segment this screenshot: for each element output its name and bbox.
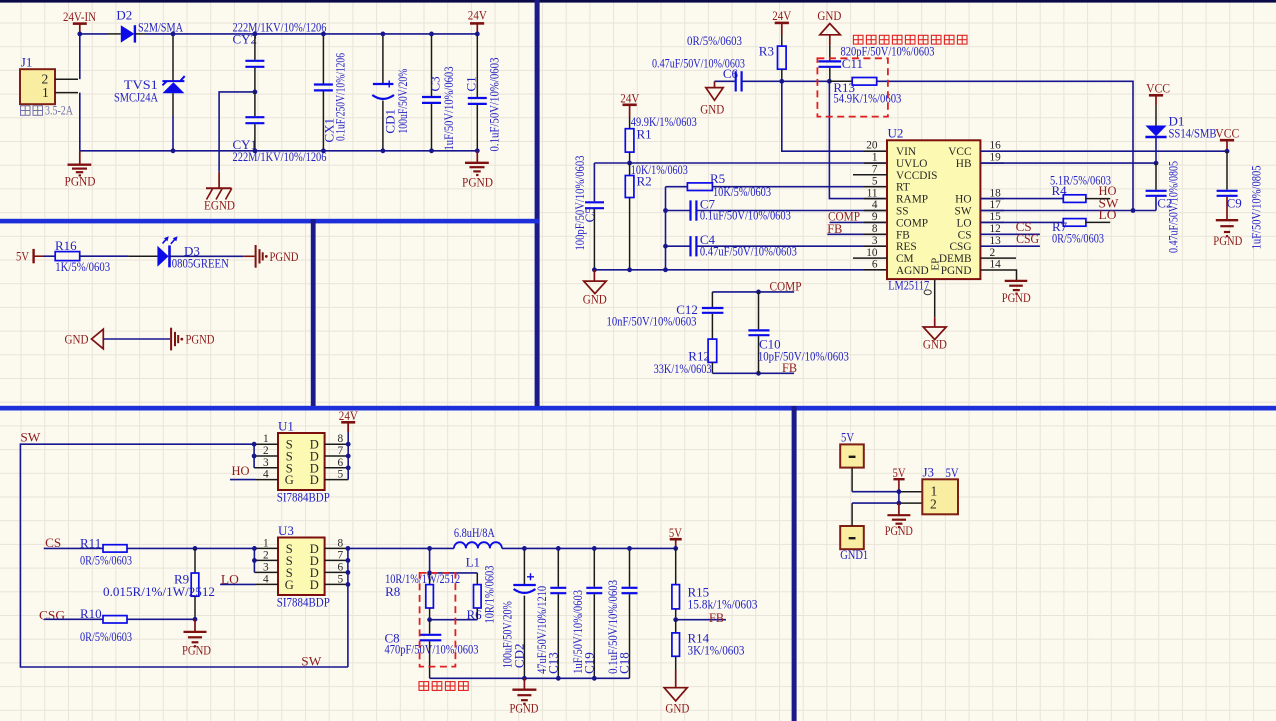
svg-text:L1: L1 [466, 555, 480, 570]
svg-text:2: 2 [930, 497, 937, 512]
capacitor C3 [422, 34, 456, 151]
node C7 left [663, 208, 668, 213]
node RT branch bottom [663, 267, 668, 272]
node C1 bottom [475, 148, 480, 153]
node R1/R2 divider [627, 161, 632, 166]
svg-text:AGND: AGND [896, 265, 929, 277]
svg-text:24V-IN: 24V-IN [63, 9, 97, 24]
net label FB (pin8) [827, 221, 887, 236]
wire output ground rail [430, 677, 630, 679]
U3 drain pin tie [325, 548, 348, 667]
svg-text:470pF/50V/10%/0603: 470pF/50V/10%/0603 [385, 642, 479, 657]
svg-text:CSG: CSG [950, 241, 972, 253]
wire CY mid to EGND drop [219, 92, 255, 172]
svg-text:PGND: PGND [270, 249, 299, 264]
svg-text:VCC: VCC [948, 146, 971, 158]
U2 pin stubs (black) [864, 151, 1004, 270]
svg-text:FB: FB [709, 610, 724, 625]
power port GND arrow (net tie) [65, 329, 104, 349]
wire FB bottom (compensation) [712, 372, 794, 374]
polarized capacitor CD2 [500, 548, 536, 678]
svg-text:PGND: PGND [510, 700, 539, 715]
wire RT branch vertical [665, 187, 667, 270]
svg-text:GND: GND [583, 291, 607, 306]
resistor R4 [980, 172, 1116, 202]
section divider horizontal y221 [0, 219, 540, 224]
node U3 pin5 [346, 582, 351, 587]
svg-text:CS: CS [45, 535, 61, 550]
svg-text:CS: CS [958, 229, 972, 241]
node U1 pin1 [252, 442, 257, 447]
svg-text:HO: HO [955, 194, 971, 206]
svg-text:0R/5%/0603: 0R/5%/0603 [80, 629, 132, 644]
node 24V junction [475, 32, 480, 37]
op-amp controller U2 LM25117 [887, 126, 980, 295]
U1 pin numbers [263, 433, 344, 480]
wire HB pin19 row [980, 162, 1156, 164]
resistor R7 [980, 207, 1116, 245]
node C5 bottom [592, 267, 597, 272]
U2 pin names [896, 146, 972, 277]
LED D3 [157, 236, 229, 270]
section divider vertical x794 [792, 406, 797, 721]
wire GND to PGND tie [103, 338, 170, 340]
svg-text:0.47uF/50V/10%/0603: 0.47uF/50V/10%/0603 [700, 243, 797, 258]
svg-text:10: 10 [866, 247, 878, 259]
svg-text:LO: LO [1099, 207, 1117, 222]
power port 5V (J3) [893, 465, 906, 492]
svg-text:3.5-2A: 3.5-2A [45, 103, 73, 118]
svg-text:CM: CM [896, 253, 914, 265]
power ground PGND (R9) [182, 619, 211, 657]
node CY1 bottom [253, 148, 258, 153]
power port 5V LED [16, 249, 43, 264]
wire R13 to SW [877, 81, 1133, 210]
svg-text:GND1: GND1 [840, 547, 868, 562]
net label FB (divider) [676, 610, 726, 625]
svg-text:LM25117: LM25117 [888, 277, 929, 292]
wire vertical 24V-IN to J1 pin2 [79, 34, 81, 79]
node TVS bottom [171, 148, 176, 153]
wire D3 to PGND [170, 255, 255, 257]
annotation box ramp components [817, 58, 888, 116]
capacitor C9 [1217, 151, 1264, 249]
svg-text:CD2: CD2 [511, 644, 526, 669]
node CY2 top [253, 32, 258, 37]
wire down to C5 [593, 163, 595, 201]
transistor U1 SI7884BDP [277, 419, 330, 505]
svg-text:R8: R8 [385, 584, 400, 599]
svg-text:1uF/50V/10%/0603: 1uF/50V/10%/0603 [441, 67, 456, 151]
node C3 bottom [429, 148, 434, 153]
svg-text:4: 4 [872, 199, 878, 211]
capacitor C19 [570, 548, 602, 678]
node TVS top [171, 32, 176, 37]
svg-text:GND: GND [923, 337, 947, 352]
svg-text:COMP: COMP [770, 278, 802, 293]
power port 24V (R1 divider) [620, 91, 640, 117]
net label CSG (pin13) [980, 231, 1040, 246]
svg-text:SS: SS [896, 206, 909, 218]
svg-text:VIN: VIN [896, 146, 916, 158]
svg-text:20: 20 [866, 140, 878, 152]
svg-text:4: 4 [263, 469, 269, 481]
node R8/R6 top [427, 571, 432, 576]
svg-text:D: D [310, 473, 319, 487]
svg-text:1: 1 [42, 85, 49, 100]
wire L1 to 5V node [502, 547, 676, 549]
capacitor C12 [607, 292, 724, 339]
svg-text:0.1uF/250V/10%/1206: 0.1uF/250V/10%/1206 [333, 53, 348, 141]
resistor R9 [103, 548, 215, 619]
svg-text:10pF/50V/10%/0603: 10pF/50V/10%/0603 [758, 349, 849, 364]
polarized capacitor CD1 [372, 34, 410, 151]
svg-text:R2: R2 [637, 173, 652, 188]
svg-text:SI7884BDP: SI7884BDP [277, 595, 330, 610]
svg-text:1uF/50V/10%/0805: 1uF/50V/10%/0805 [1248, 165, 1263, 249]
resistor R2 [625, 162, 688, 270]
node SW ramp junction [1131, 208, 1136, 213]
svg-text:HO: HO [232, 463, 250, 478]
node R8 bottom [427, 617, 432, 622]
node J3 pin2 [897, 501, 902, 506]
svg-text:R16: R16 [55, 238, 77, 253]
svg-text:12: 12 [990, 223, 1002, 235]
resistor R14 [672, 620, 745, 670]
resistor R16 [55, 238, 110, 274]
node ramp [827, 79, 832, 84]
svg-text:9: 9 [872, 211, 878, 223]
power ground PGND (C9) [1213, 197, 1242, 248]
node U3 pin1 [252, 546, 257, 551]
svg-text:5V: 5V [946, 465, 959, 480]
svg-text:PGND: PGND [1002, 290, 1031, 305]
resistor R12 [654, 339, 717, 376]
annotation box snubber [420, 573, 456, 667]
power ground PGND (output) [510, 678, 539, 715]
svg-text:3K/1%/0603: 3K/1%/0603 [688, 642, 745, 657]
svg-text:C13: C13 [545, 652, 560, 674]
svg-text:5V: 5V [841, 430, 854, 445]
node HB / D1 cathode [1154, 161, 1159, 166]
wire between J3 nodes [898, 492, 900, 503]
node CD1 bottom [381, 148, 386, 153]
capacitor C18 [605, 548, 637, 678]
svg-text:RT: RT [896, 182, 910, 194]
power port GND (EP pad) [923, 280, 947, 352]
node U3 pin8 [346, 546, 351, 551]
J1 value label 绿色3.5-2A [21, 103, 74, 118]
svg-text:VCCDIS: VCCDIS [896, 170, 937, 182]
svg-text:13: 13 [990, 235, 1002, 247]
svg-text:SW: SW [301, 654, 322, 669]
power port GND (R14) [664, 670, 689, 715]
node U3 pin6 [346, 570, 351, 575]
connector J3 [922, 465, 959, 515]
power ground PGND bar-style (net tie) [171, 328, 214, 351]
wire SW loop left [20, 444, 348, 667]
svg-text:S2M/SMA: S2M/SMA [138, 20, 183, 35]
node CD1 top [381, 32, 386, 37]
node C4 left [663, 244, 668, 249]
node C13 bottom [556, 676, 561, 681]
svg-text:5V: 5V [893, 465, 906, 480]
node snubber top [427, 546, 432, 551]
svg-text:0.1uF/50V/10%/0603: 0.1uF/50V/10%/0603 [486, 58, 501, 152]
power port GND (C11 top) [817, 8, 841, 45]
power ground PGND (J3) [885, 503, 913, 538]
node VCC / C9 top [1225, 149, 1230, 154]
TVS diode TVS1 [114, 34, 185, 151]
node C13 top [556, 546, 561, 551]
node CX1 bottom [321, 148, 326, 153]
node C19 bottom [592, 676, 597, 681]
svg-text:5: 5 [338, 469, 344, 481]
svg-text:LO: LO [956, 217, 971, 229]
svg-text:R3: R3 [759, 44, 774, 59]
svg-text:15: 15 [990, 211, 1002, 223]
svg-text:3: 3 [872, 235, 878, 247]
svg-text:24V: 24V [620, 91, 640, 106]
svg-text:PGND: PGND [186, 332, 215, 347]
power port GND (AGND rail) [583, 270, 607, 307]
transistor U3 SI7884BDP [277, 523, 330, 609]
power port GND (C6) [700, 81, 724, 116]
resistor R6 [430, 566, 497, 624]
capacitor C8 [385, 620, 479, 679]
node U3 pin7 [346, 558, 351, 563]
svg-text:U2: U2 [888, 126, 904, 141]
svg-text:RAMP: RAMP [896, 194, 928, 206]
node C19 top [592, 546, 597, 551]
wire 5V testpoint to J3 pin1 [852, 468, 922, 492]
svg-text:24V: 24V [339, 408, 359, 423]
svg-text:D: D [310, 578, 319, 592]
svg-text:VCC: VCC [1146, 81, 1170, 96]
power port VCC (D1 anode) [1146, 81, 1170, 105]
power ground PGND (pin14) [980, 270, 1030, 305]
wire UVLO row [594, 162, 887, 164]
capacitor C10 [748, 292, 849, 373]
capacitor C11 [819, 44, 935, 82]
power ground PGND left [65, 151, 96, 189]
resistor R1 [625, 114, 697, 163]
svg-text:10R/1%/0603: 10R/1%/0603 [481, 566, 496, 624]
svg-text:3: 3 [263, 457, 269, 469]
svg-text:DEMB: DEMB [939, 253, 972, 265]
svg-text:GND: GND [65, 332, 89, 347]
svg-text:C18: C18 [616, 652, 631, 674]
svg-text:17: 17 [990, 199, 1002, 211]
svg-text:PGND: PGND [941, 265, 972, 277]
svg-text:G: G [285, 473, 294, 487]
svg-text:8: 8 [338, 433, 344, 445]
svg-text:100uF/50V/20%: 100uF/50V/20% [395, 68, 410, 133]
svg-text:G: G [285, 578, 294, 592]
wire J1 pin1 down to ground rail [79, 93, 81, 151]
svg-text:1: 1 [872, 152, 878, 164]
net label LO (U3 gate) [220, 572, 278, 587]
svg-text:24V: 24V [772, 8, 792, 23]
net label CS (pin12) [980, 219, 1040, 234]
U1 pin names [285, 438, 319, 487]
annotation text 斜坡电阻和斜坡电容 [853, 35, 967, 44]
svg-text:7: 7 [338, 549, 344, 561]
section divider vertical x313 [311, 219, 316, 410]
svg-text:U1: U1 [278, 419, 294, 434]
node 24V-IN junction [77, 32, 82, 37]
test point GND1 [840, 526, 868, 562]
svg-text:SW: SW [955, 206, 972, 218]
svg-text:U3: U3 [278, 523, 294, 538]
node CD2 top [522, 546, 527, 551]
diode D1 [1145, 105, 1216, 163]
svg-text:11: 11 [867, 187, 878, 199]
svg-text:EP: EP [930, 258, 942, 271]
svg-text:FB: FB [896, 229, 910, 241]
svg-text:R4: R4 [1052, 183, 1068, 198]
capacitor C2 [1146, 161, 1181, 253]
wire VIN vertical to pin20 [782, 81, 887, 151]
U1 source pin tie [254, 444, 278, 468]
capacitor CY2 [233, 20, 327, 92]
svg-text:4: 4 [263, 573, 269, 585]
svg-text:RES: RES [896, 241, 917, 253]
node J3 pin1 [897, 489, 902, 494]
power port VCC (C9) [1215, 125, 1239, 151]
capacitor CX1 [314, 34, 348, 151]
capacitor C13 [534, 548, 566, 678]
svg-text:2: 2 [263, 549, 269, 561]
connector J1 [20, 55, 78, 105]
svg-text:6: 6 [338, 561, 344, 573]
svg-text:COMP: COMP [896, 217, 928, 229]
svg-text:0.47uF/50V/10%/0805: 0.47uF/50V/10%/0805 [1166, 161, 1181, 253]
wire AGND rail [594, 269, 887, 271]
wire ramp node down to RAMP pin [829, 81, 887, 198]
node COMP/C10 [756, 290, 761, 295]
ground EGND [204, 172, 235, 213]
svg-text:J3: J3 [923, 465, 935, 480]
svg-text:0.015R/1%/1W/2512: 0.015R/1%/1W/2512 [103, 584, 215, 599]
net label COMP (pin9) [828, 209, 887, 224]
svg-text:8: 8 [338, 537, 344, 549]
test point 5V [840, 430, 864, 468]
node CX1 top [321, 32, 326, 37]
node CD2 bottom [522, 676, 527, 681]
section divider vertical x537 [535, 0, 540, 410]
svg-text:7: 7 [872, 164, 878, 176]
node U1 pin6 [346, 465, 351, 470]
node R3 bottom / VIN [779, 79, 784, 84]
svg-text:PGND: PGND [65, 174, 96, 189]
node U1 pin8 [346, 442, 351, 447]
resistor R15 [672, 548, 758, 619]
wire VIN node to C6 [743, 80, 782, 82]
svg-text:3: 3 [263, 561, 269, 573]
U2 unconnected pin stubs 7,10 [853, 175, 887, 258]
node R9 bottom [193, 617, 198, 622]
svg-text:CSG: CSG [39, 607, 65, 622]
wire VCC pin16 row [980, 150, 1227, 152]
power port 24V (U1 drain) [339, 408, 359, 432]
svg-text:C1: C1 [463, 76, 478, 91]
svg-text:33K/1%/0603: 33K/1%/0603 [654, 361, 712, 376]
svg-text:2: 2 [990, 247, 996, 259]
svg-text:CSG: CSG [1016, 231, 1039, 246]
svg-text:24V: 24V [468, 8, 488, 23]
node C3 top [429, 32, 434, 37]
svg-text:8: 8 [872, 223, 878, 235]
svg-text:2: 2 [263, 445, 269, 457]
svg-text:16: 16 [990, 140, 1002, 152]
svg-text:1: 1 [263, 537, 269, 549]
wire SW pin17 row [980, 210, 1156, 212]
svg-text:J1: J1 [21, 55, 33, 70]
svg-text:UVLO: UVLO [896, 158, 927, 170]
svg-text:54.9K/1%/0603: 54.9K/1%/0603 [833, 90, 901, 105]
wire VIN node to ramp node [782, 80, 829, 82]
svg-text:GND: GND [817, 8, 841, 23]
svg-text:R1: R1 [637, 127, 652, 142]
node R9 top [193, 546, 198, 551]
node U1 pin2 [252, 454, 257, 459]
inductor L1 [454, 525, 502, 570]
svg-text:6: 6 [338, 457, 344, 469]
U2 pin stub DEMB pin2 [980, 257, 1016, 259]
svg-text:SS14/SMB: SS14/SMB [1169, 125, 1217, 140]
svg-text:PGND: PGND [182, 643, 211, 658]
svg-text:1K/5%/0603: 1K/5%/0603 [55, 259, 110, 274]
resistor R10 [44, 606, 195, 644]
wire bottom ground rail [80, 150, 478, 152]
power port 24V-IN [63, 9, 97, 34]
U3 pin numbers [263, 537, 344, 585]
svg-text:5: 5 [338, 573, 344, 585]
capacitor C7 [666, 196, 888, 222]
svg-text:C19: C19 [581, 652, 596, 674]
svg-text:10nF/50V/10%/0603: 10nF/50V/10%/0603 [607, 314, 697, 329]
svg-text:1: 1 [263, 433, 269, 445]
node C18 top [627, 546, 632, 551]
svg-text:SMCJ24A: SMCJ24A [114, 90, 158, 105]
svg-text:100pF/50V/10%/0603: 100pF/50V/10%/0603 [572, 156, 587, 251]
svg-text:GND: GND [700, 101, 724, 116]
resistor R3 [687, 8, 792, 81]
resistor R11 [44, 535, 255, 567]
svg-text:7: 7 [338, 445, 344, 457]
svg-text:PGND: PGND [1213, 233, 1242, 248]
svg-text:19: 19 [990, 152, 1002, 164]
wire GND1 to J3 pin2 [852, 503, 922, 526]
svg-text:0R/5%/0603: 0R/5%/0603 [687, 33, 742, 48]
svg-text:HB: HB [956, 158, 972, 170]
svg-text:6.8uH/8A: 6.8uH/8A [454, 525, 495, 540]
resistor R8 [385, 571, 460, 620]
resistor R13 [829, 78, 901, 106]
power ground PGND right [462, 151, 493, 190]
svg-text:GND: GND [665, 700, 689, 715]
capacitor C6 [652, 55, 745, 91]
node U3 pin2 [252, 558, 257, 563]
node CY mid junction [253, 90, 258, 95]
svg-text:5V: 5V [669, 525, 682, 540]
svg-text:0805GREEN: 0805GREEN [172, 256, 229, 271]
net label COMP (compensation) [712, 278, 801, 293]
svg-text:5: 5 [872, 175, 878, 187]
wire 24V-IN to D2 anode [80, 33, 108, 35]
U2 pin numbers right [990, 140, 1002, 271]
